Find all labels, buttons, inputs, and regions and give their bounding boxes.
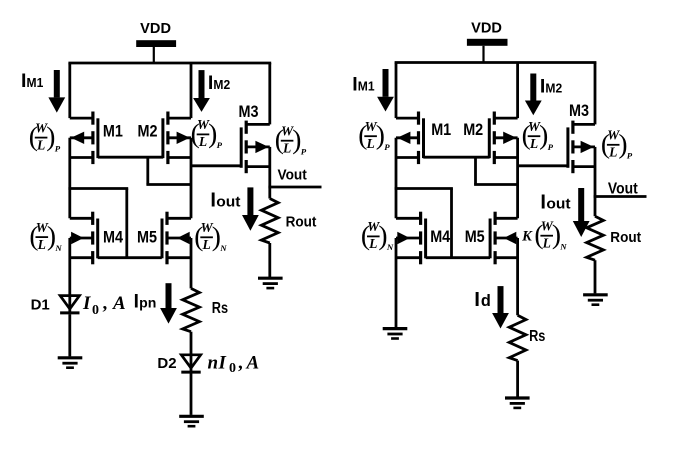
svg-text:W: W [541, 218, 554, 233]
wire D2 to ground [190, 374, 193, 415]
ground below D1 [58, 358, 83, 368]
svg-text:Rs: Rs [212, 300, 228, 317]
svg-text:D2: D2 [157, 355, 176, 372]
svg-text:0: 0 [92, 303, 99, 318]
svg-text:P: P [301, 146, 307, 156]
supply label VDD (right) [471, 21, 502, 37]
svg-text:N: N [54, 243, 62, 253]
wire VDD stub (right) [482, 46, 484, 63]
wire Rs to ground (right) [516, 361, 519, 397]
label K(W/L)N of M5 (right) [521, 218, 567, 251]
svg-text:Rout: Rout [610, 229, 641, 246]
wire right circuit left branch upper [395, 63, 398, 119]
wire right circuit left branch to ground [395, 238, 398, 327]
label M2 (right) [463, 120, 483, 139]
svg-text:M4: M4 [430, 227, 451, 246]
svg-text:I: I [474, 288, 480, 311]
label M5 (right) [465, 227, 485, 246]
label I0,A (D1 value) [82, 293, 126, 318]
svg-text:M3: M3 [239, 102, 259, 121]
svg-text:VDD: VDD [471, 21, 502, 37]
svg-text:P: P [217, 140, 223, 150]
current arrow IM2 (left) [193, 70, 210, 112]
wire M2 diode-connect vertical (right) [474, 157, 477, 184]
label M5 [137, 228, 157, 247]
transistor M5 (right) [490, 212, 517, 265]
svg-text:W: W [197, 117, 210, 132]
supply label VDD (left) [140, 21, 171, 37]
svg-text:M4: M4 [103, 228, 124, 247]
label M3 [239, 102, 259, 121]
wire mid branch M5 bulk down to Rs [190, 238, 193, 288]
label M3 (right) [569, 101, 589, 120]
svg-text:M2: M2 [213, 77, 230, 92]
svg-text:W: W [365, 119, 378, 134]
label Rout (right) [610, 229, 641, 246]
wire gate wire M1-M2 (right) [423, 156, 489, 159]
svg-text:M1: M1 [103, 122, 123, 141]
transistor M1 [70, 112, 98, 165]
wire node horizontal (right) [395, 187, 453, 190]
label IM1 (left) [21, 70, 44, 92]
svg-text:L: L [37, 237, 46, 252]
wire M2 diode-connect horizontal [146, 183, 191, 186]
wire Rout top lead [268, 187, 271, 199]
transistor M1 (right) [396, 112, 424, 165]
svg-text:0: 0 [229, 361, 236, 376]
svg-text:W: W [36, 220, 49, 235]
resistor Rout (right) [587, 216, 604, 260]
label (W/L)N of M4 (right) [361, 219, 394, 252]
svg-text:M2: M2 [463, 120, 483, 139]
transistor M3 [241, 121, 270, 174]
svg-text:P: P [384, 142, 390, 152]
wire Rout bottom lead (right) [594, 260, 597, 293]
label Vout (left) [278, 167, 307, 184]
wire gate wire M4-M5 [98, 256, 162, 259]
svg-text:A: A [246, 353, 260, 374]
svg-text:P: P [548, 142, 554, 152]
wire gate drop vertical M4-M5 (right) [450, 189, 453, 258]
svg-text:pn: pn [139, 295, 156, 311]
wire right circuit left branch mid [395, 138, 398, 219]
label D1 [31, 296, 50, 313]
svg-text:Rs: Rs [529, 328, 545, 345]
wire right circuit mid branch upper (IM2) [516, 63, 519, 119]
svg-text:n: n [208, 353, 219, 374]
wire VDD stub (left) [153, 47, 155, 63]
label nI0,A (D2 value) [208, 353, 260, 376]
wire Vout line right [594, 195, 647, 198]
svg-text:I: I [218, 353, 227, 374]
label Iout (right) [540, 191, 570, 213]
svg-text:out: out [546, 195, 570, 212]
transistor M3 (right) [568, 121, 595, 174]
svg-text:Vout: Vout [278, 167, 307, 184]
wire D2 anode pass-through [190, 355, 193, 372]
label Iout (left) [210, 190, 240, 212]
svg-text:A: A [112, 293, 126, 314]
wire Rout bottom lead [268, 243, 271, 277]
svg-text:Vout: Vout [608, 180, 638, 197]
svg-text:out: out [216, 194, 240, 211]
label (W/L)P of M3 (right) [601, 128, 633, 161]
wire Rout top lead (right) [594, 197, 597, 217]
wire right circuit mid branch [516, 138, 519, 219]
wire left top rail [68, 62, 271, 65]
label IM1 (right) [352, 74, 375, 96]
svg-text:M5: M5 [465, 227, 485, 246]
wire right circuit M3 bulk to Vout [594, 147, 597, 197]
svg-text:L: L [368, 236, 377, 251]
label IM2 (right) [540, 76, 562, 98]
svg-text:W: W [281, 123, 294, 138]
wire right circuit mid branch to Rs [516, 238, 519, 315]
wire right branch upper (M3 drain) [268, 63, 271, 124]
svg-text:N: N [386, 242, 394, 252]
wire M2 diode-connect horizontal (right) [474, 183, 517, 186]
current arrow Iout (right) [573, 188, 590, 237]
svg-text:W: W [607, 128, 620, 143]
label Rout (left) [286, 214, 317, 231]
label Vout (right) [608, 180, 638, 197]
svg-text:W: W [528, 119, 541, 134]
resistor Rs (right) [509, 315, 526, 360]
wire gate wire M4-M5 (right) [426, 256, 490, 259]
label Rs (left) [212, 300, 228, 317]
svg-text:d: d [481, 292, 491, 310]
label D2 [157, 355, 176, 372]
diode D2 [181, 355, 200, 372]
resistor Rout (left) [261, 199, 278, 244]
wire right branch M3 bulk to Vout [268, 147, 271, 187]
wire M3 gate feed (right) [518, 164, 568, 167]
wire right top rail [395, 61, 597, 64]
svg-text:I: I [540, 191, 546, 213]
svg-text:L: L [365, 136, 374, 151]
svg-text:L: L [529, 136, 538, 151]
svg-text:,: , [238, 353, 243, 374]
svg-text:M2: M2 [545, 81, 562, 96]
svg-text:W: W [367, 219, 380, 234]
ground below Rout (right) [583, 295, 608, 305]
wire M2 diode-connect vertical [146, 157, 149, 184]
svg-text:W: W [35, 120, 48, 135]
wire left branch M1 bulk to M4 drain [68, 138, 71, 219]
label (W/L)P of M3 [275, 123, 307, 156]
label (W/L)P of M1 [29, 120, 61, 153]
svg-text:L: L [608, 145, 617, 160]
label M4 [103, 228, 124, 247]
svg-text:L: L [282, 140, 291, 155]
wire D1 anode pass-through [68, 297, 71, 313]
svg-text:M2: M2 [138, 122, 158, 141]
svg-text:P: P [627, 151, 633, 161]
current arrow Ipn [160, 283, 177, 323]
ground below Rs (right) [505, 398, 530, 408]
wire left branch upper [68, 63, 71, 118]
transistor M2 [163, 112, 191, 165]
svg-text:L: L [198, 134, 207, 149]
wire mid branch upper (IM2) [190, 63, 193, 118]
svg-text:M1: M1 [27, 75, 44, 90]
svg-text:L: L [36, 137, 45, 152]
label M2 [138, 122, 158, 141]
svg-text:I: I [134, 292, 139, 313]
VDD bar (right) [467, 39, 508, 46]
svg-text:I: I [82, 293, 91, 314]
ground below Rout (left) [258, 278, 283, 288]
wire Vout line left [268, 186, 321, 189]
label M1 [103, 122, 123, 141]
svg-text:M1: M1 [358, 79, 375, 94]
svg-text:L: L [201, 237, 210, 252]
transistor M4 (right) [396, 212, 426, 265]
label (W/L)N of M5 [194, 220, 227, 253]
svg-text:W: W [201, 220, 214, 235]
transistor M2 (right) [489, 112, 517, 165]
wire gate drop vertical M4-M5 [125, 189, 128, 258]
label (W/L)N of M4 [29, 220, 62, 253]
label M1 (right) [431, 120, 451, 139]
wire node A horizontal (M1 source to gate drop) [68, 187, 128, 190]
svg-text:M1: M1 [431, 120, 451, 139]
label IM2 (left) [208, 72, 230, 94]
ground below left branch (right) [383, 329, 408, 339]
wire gate wire M1-M2 [98, 156, 163, 159]
current arrow IM1 (left) [48, 70, 65, 113]
label Rs (right) [529, 328, 545, 345]
wire right circuit M3 branch upper [594, 63, 597, 125]
wire mid branch M2 bulk to M5 drain [190, 138, 193, 219]
current arrow Iout (left) [242, 187, 259, 230]
label (W/L)P of M2 (right) [522, 119, 554, 152]
wire D1 to ground [68, 314, 71, 356]
resistor Rs (left) [183, 288, 200, 331]
current arrow IM2 (right) [525, 74, 542, 116]
transistor M4 [70, 212, 98, 265]
VDD bar (left) [136, 40, 176, 47]
svg-text:N: N [219, 243, 227, 253]
svg-text:M3: M3 [569, 101, 589, 120]
label M4 (right) [430, 227, 451, 246]
label Id [474, 288, 491, 311]
svg-text:L: L [542, 235, 551, 250]
wire Rs to D2 [190, 332, 193, 355]
ground below D2 [179, 416, 204, 426]
wire M3 gate feed [191, 164, 241, 167]
svg-text:K: K [521, 228, 533, 244]
svg-text:D1: D1 [31, 296, 50, 313]
wire left branch M4 bulk down to D1 [68, 238, 71, 297]
svg-text:VDD: VDD [140, 21, 171, 37]
label (W/L)P of M2 [191, 117, 223, 150]
diode D1 [60, 296, 79, 313]
svg-text:N: N [559, 241, 567, 251]
svg-text:I: I [210, 190, 216, 212]
label Ipn [134, 292, 157, 313]
svg-text:,: , [103, 293, 108, 314]
svg-text:P: P [55, 143, 61, 153]
svg-text:Rout: Rout [286, 214, 317, 231]
current arrow IM1 (right) [377, 69, 394, 112]
svg-text:M5: M5 [137, 228, 157, 247]
transistor M5 [162, 212, 191, 265]
current arrow Id [492, 286, 509, 328]
label (W/L)P of M1 (right) [358, 119, 390, 152]
